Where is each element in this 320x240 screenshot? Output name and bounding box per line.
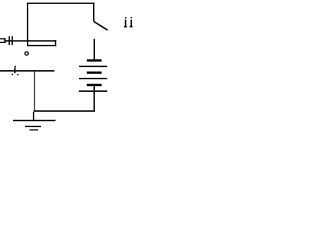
battery plate thin 2 (79, 66, 107, 67)
terminal block cut off at left edge (0, 38, 6, 43)
wire top horizontal (27, 3, 95, 4)
plug tick mark 1 (9, 36, 10, 45)
wire mid-left horizontal (0, 70, 55, 72)
battery plate thick 3 (87, 72, 102, 74)
ground line 2 (25, 126, 41, 127)
switch S1 blade (open) (94, 21, 108, 30)
battery plate thick 5 (87, 84, 102, 86)
label ii (current) (124, 17, 133, 27)
battery top terminal wire (94, 39, 95, 60)
ground line 3 (30, 129, 39, 130)
battery bottom terminal wire (94, 86, 95, 112)
resistor R1 box (27, 40, 56, 46)
battery plate thin 6 (79, 90, 108, 92)
ground line 1 (13, 120, 56, 121)
ground stub (33, 112, 34, 121)
plug tick mark 2 (12, 36, 13, 45)
wire left horizontal (runs along resistor top edge) (5, 40, 56, 41)
wire left vertical (27, 3, 28, 42)
wire bottom horizontal (34, 110, 95, 112)
switch S1 upper terminal wire (93, 3, 94, 22)
wire vertical to ground (light stroke) (34, 72, 35, 112)
battery plate thick 1 (87, 59, 102, 61)
label i (current) (12, 66, 19, 76)
small terminal circle (25, 52, 28, 55)
battery plate thin 4 (79, 78, 107, 79)
